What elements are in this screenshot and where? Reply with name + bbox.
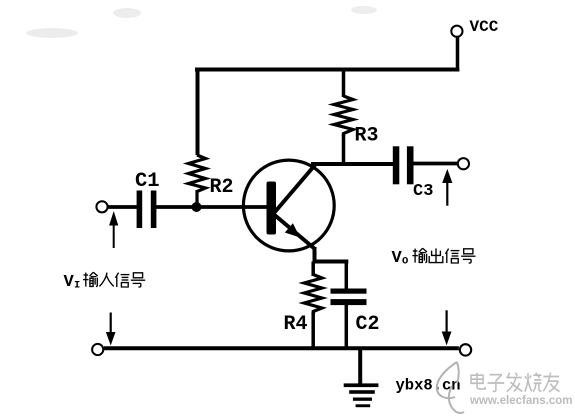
arrow: bottom-left (down) [110,313,112,335]
wire: C1 to transistor base [156,205,267,209]
terminal: input [96,201,107,212]
ground symbol [344,383,379,387]
wire: C2 top lead [345,260,349,289]
resistor R3 [334,96,353,136]
wire: emitter branch horizontal [313,260,349,264]
svg-text:R3: R3 [355,125,379,148]
svg-text:R2: R2 [210,176,234,199]
svg-text:V: V [64,273,75,292]
svg-text:ybx8.cn: ybx8.cn [396,377,461,395]
capacitor C1 [137,191,143,229]
terminal VCC [451,26,462,37]
wire: C2 bottom lead [345,305,349,348]
terminal: output [458,158,469,169]
watermark: 电子发烧友 [471,373,560,392]
svg-text:R4: R4 [284,313,308,336]
wire: branch down to R4 [311,262,315,277]
svg-text:O: O [402,256,408,268]
transistor Q1 collector stroke [274,165,315,213]
terminal: bottom-right [460,344,471,355]
wire: collector horizontal rail [311,162,393,166]
wire: left vertical from top rail down to R2 [196,68,200,156]
wire: ground stem [358,350,362,384]
label Vi 输入信号 [64,272,146,292]
arrow: input signal (up) [113,223,115,248]
node: base junction dot [192,202,202,212]
capacitor C3 [393,146,400,184]
wire: top supply rail [195,68,459,72]
svg-text:C3: C3 [413,182,433,201]
terminal: bottom-left [92,344,103,355]
arrow: output signal (up) [446,181,448,206]
wire: VCC drop [456,37,460,72]
svg-text:C2: C2 [356,313,380,336]
wire: R3 drop from rail [342,71,346,97]
svg-text:I: I [74,280,80,292]
svg-text:VCC: VCC [470,18,499,36]
transistor Q1 emitter arrowhead [285,223,300,237]
capacitor C2 [331,289,367,294]
arrow: bottom-right (down) [446,310,448,332]
svg-text:www.elecfans.com: www.elecfans.com [469,395,572,407]
wire: R4 to ground rail [311,312,315,348]
wire: R3 bottom to collector rail [342,134,346,166]
faint scan smudges (decorative) [26,6,377,38]
transistor Q1 body circle [243,160,334,251]
label Vo 输出信号 [392,248,476,268]
svg-text:V: V [392,249,403,268]
transistor Q1 base bar [267,182,277,235]
svg-text:C1: C1 [135,170,160,193]
resistor R2 [189,155,206,192]
wire: R2 bottom lead to base node [195,190,198,207]
wire: input terminal to C1 [108,205,137,209]
wire: C3 to output terminal [414,162,458,166]
watermark: ybx8 logo swoosh [437,362,464,413]
wire: emitter lead down [313,247,317,264]
wire: bottom ground rail [104,346,459,350]
resistor R4 [304,275,322,315]
transistor Q1 emitter stroke [274,215,316,250]
